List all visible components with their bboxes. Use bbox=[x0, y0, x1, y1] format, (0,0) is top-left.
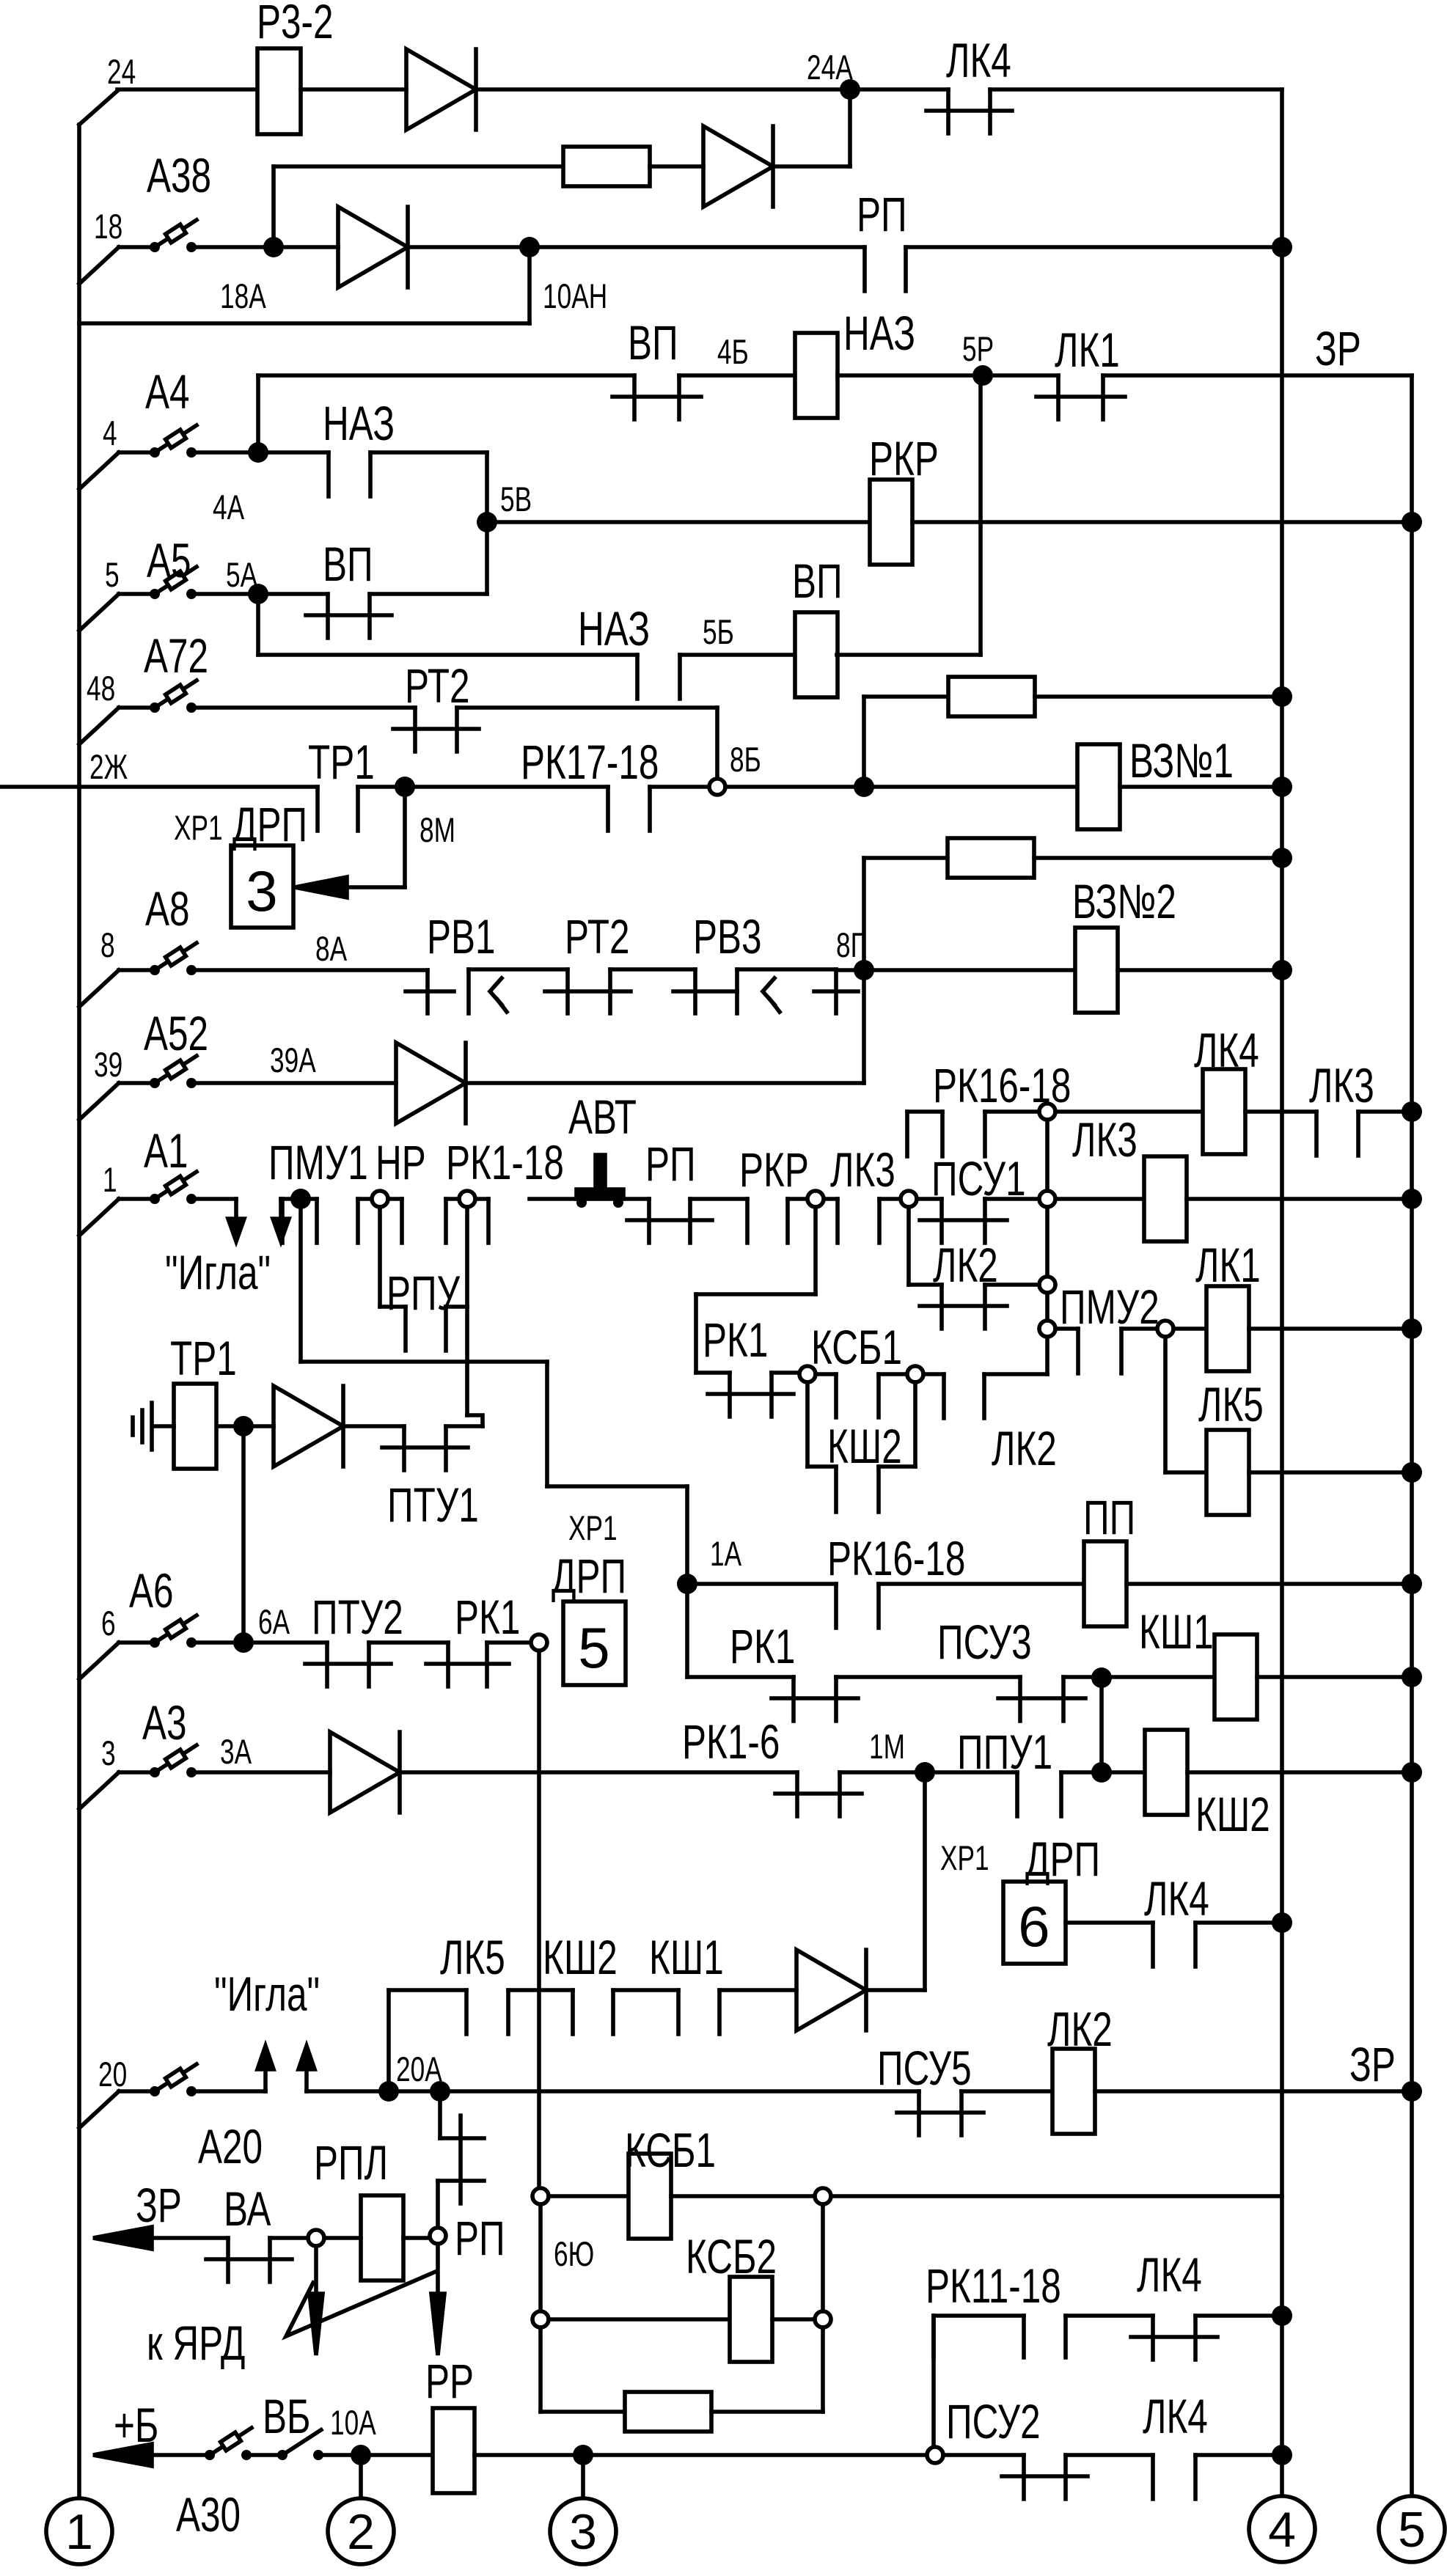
svg-text:24: 24 bbox=[107, 52, 136, 91]
svg-text:А5: А5 bbox=[147, 534, 191, 588]
relay coil РР bbox=[433, 2408, 475, 2493]
wire bbox=[1245, 1109, 1316, 1114]
wire pin column bbox=[1045, 1120, 1049, 1191]
wire bbox=[719, 1988, 796, 1992]
svg-text:4Б: 4Б bbox=[717, 332, 749, 371]
svg-text:ЗР: ЗР bbox=[1315, 322, 1361, 376]
node 8Б-junction bbox=[854, 777, 874, 797]
wire bbox=[274, 245, 338, 249]
node on bus 4 bbox=[1272, 237, 1292, 257]
contact ЛК1 (row 4Б) bbox=[1056, 375, 1060, 419]
svg-text:6: 6 bbox=[101, 1604, 116, 1643]
svg-text:1М: 1М bbox=[869, 1727, 905, 1766]
wire bbox=[1249, 1326, 1412, 1331]
node circled 2 bbox=[328, 2498, 394, 2564]
svg-text:РКР: РКР bbox=[739, 1143, 809, 1197]
svg-text:ЛК1: ЛК1 bbox=[1055, 323, 1120, 378]
pin ПСУ2-left bbox=[927, 2447, 943, 2463]
svg-text:1: 1 bbox=[65, 2504, 93, 2560]
wire bbox=[301, 87, 406, 92]
wire РК11-18 riser bbox=[931, 2316, 936, 2447]
diode VD1 bbox=[406, 49, 476, 130]
relay coil ПП bbox=[1084, 1541, 1127, 1626]
svg-text:24А: 24А bbox=[807, 48, 853, 87]
svg-text:ВЗ№1: ВЗ№1 bbox=[1129, 734, 1234, 788]
contact ППУ1 bbox=[1015, 1772, 1019, 1816]
wire 1М bbox=[840, 1770, 1017, 1775]
svg-text:ПСУ5: ПСУ5 bbox=[877, 2041, 972, 2096]
wire bus column 4 bbox=[1280, 89, 1284, 2495]
wire bbox=[773, 164, 850, 169]
contact НР (row 1) bbox=[358, 1197, 402, 1201]
contact ПТУ1 bbox=[402, 1426, 406, 1470]
wire bbox=[679, 373, 795, 378]
svg-text:ЛК1: ЛК1 bbox=[1195, 1239, 1261, 1293]
svg-text:ПМУ2: ПМУ2 bbox=[1060, 1280, 1160, 1335]
relay coil ЛК2 bbox=[1052, 2049, 1095, 2134]
node 10АН bbox=[519, 237, 540, 257]
svg-text:РК1-6: РК1-6 bbox=[682, 1715, 780, 1769]
svg-text:А6: А6 bbox=[129, 1564, 174, 1618]
contact НАЗ (row 4) bbox=[326, 452, 331, 496]
node circled 5 bbox=[1379, 2496, 1445, 2562]
svg-text:ВА: ВА bbox=[224, 2182, 271, 2236]
svg-text:18: 18 bbox=[94, 207, 122, 246]
switch ВБ bbox=[277, 2450, 287, 2460]
wire +Б arrow bbox=[93, 2444, 152, 2466]
pin ПМУ2 bbox=[1157, 1321, 1173, 1337]
wire bbox=[1249, 1470, 1412, 1475]
relay coil КШ2 bbox=[1145, 1730, 1187, 1815]
relay coil КШ1 bbox=[1215, 1634, 1257, 1720]
svg-text:НАЗ: НАЗ bbox=[578, 602, 650, 656]
svg-text:РК1-18: РК1-18 bbox=[446, 1136, 564, 1190]
relay coil ВЗ№1 bbox=[1077, 744, 1120, 829]
wire bbox=[1195, 2453, 1282, 2457]
svg-text:ПМУ1: ПМУ1 bbox=[268, 1136, 368, 1190]
wire bbox=[369, 1640, 448, 1645]
breaker А52 bbox=[79, 1083, 119, 1120]
contact ВП (row 5) bbox=[326, 594, 330, 638]
contact РП (row 18) bbox=[862, 247, 867, 291]
node on bus 5 bbox=[1402, 1667, 1422, 1687]
svg-text:НАЗ: НАЗ bbox=[843, 307, 915, 361]
contact ЛК4 (row РК11-18) bbox=[1151, 2316, 1155, 2360]
contact РП (vertical) bbox=[438, 2091, 442, 2138]
svg-text:ЛК5: ЛК5 bbox=[1198, 1378, 1264, 1432]
wire bbox=[194, 705, 415, 710]
svg-text:48: 48 bbox=[87, 669, 115, 708]
svg-text:ПСУ2: ПСУ2 bbox=[946, 2395, 1041, 2449]
svg-text:КСБ1: КСБ1 bbox=[625, 2124, 716, 2178]
contact ПТУ2 bbox=[325, 1643, 329, 1687]
arrow к ЯРД bbox=[314, 2246, 318, 2294]
node circled 4 bbox=[1249, 2496, 1315, 2562]
diode VD2 bbox=[703, 126, 773, 207]
node 8Г bbox=[854, 960, 874, 980]
contact ПМУ2 bbox=[1055, 1326, 1078, 1331]
svg-text:ЛК4: ЛК4 bbox=[1194, 1024, 1259, 1078]
wire bbox=[370, 450, 487, 455]
node circled 3 bbox=[550, 2498, 616, 2564]
relay coil ВП bbox=[795, 612, 838, 697]
breaker А3 bbox=[79, 1772, 119, 1809]
wire bbox=[862, 858, 866, 1083]
wire bbox=[872, 785, 1077, 789]
pin РП bbox=[430, 2228, 446, 2244]
diode VD5 bbox=[274, 1386, 343, 1467]
svg-text:3: 3 bbox=[101, 1733, 116, 1772]
svg-text:ДРП: ДРП bbox=[552, 1549, 626, 1604]
wire to bus 4 bbox=[831, 2194, 1282, 2198]
svg-text:ТР1: ТР1 bbox=[308, 735, 375, 790]
svg-text:4А: 4А bbox=[213, 488, 244, 526]
svg-text:3: 3 bbox=[246, 859, 277, 923]
contact РК1-6 bbox=[795, 1772, 799, 1816]
connector Игла arrows bbox=[234, 1199, 238, 1221]
wire bbox=[583, 2453, 927, 2457]
wire 18А bbox=[194, 245, 274, 249]
svg-text:РК11-18: РК11-18 bbox=[926, 2259, 1061, 2313]
svg-text:РК1: РК1 bbox=[703, 1313, 768, 1368]
arrow to РР bbox=[436, 2244, 440, 2294]
wire bbox=[862, 697, 866, 787]
svg-text:8: 8 bbox=[100, 925, 115, 964]
wire bus column 5 bbox=[1410, 375, 1414, 2492]
svg-text:8М: 8М bbox=[420, 810, 455, 849]
pin КСБ1-left bbox=[532, 2188, 549, 2204]
svg-text:НР: НР bbox=[376, 1136, 426, 1190]
svg-text:КШ2: КШ2 bbox=[1195, 1788, 1270, 1842]
svg-text:6А: 6А bbox=[258, 1602, 290, 1641]
contact ЛК2 (row ПСУ1) bbox=[939, 1285, 944, 1329]
contact ЛК4 (row 24) bbox=[946, 89, 950, 133]
node on bus 4 bbox=[1272, 1912, 1292, 1933]
svg-text:ДРП: ДРП bbox=[232, 798, 307, 852]
svg-text:ХР1: ХР1 bbox=[174, 808, 223, 847]
node on bus 4 bbox=[1272, 777, 1292, 797]
relay coil КСБ2 bbox=[730, 2277, 772, 2362]
wire ЗР to bus 5 bbox=[1095, 2089, 1412, 2094]
svg-text:А4: А4 bbox=[145, 365, 190, 419]
wire bbox=[194, 1197, 236, 1201]
svg-text:5: 5 bbox=[1398, 2502, 1426, 2558]
svg-text:8А: 8А bbox=[315, 929, 347, 968]
node bus 3 bbox=[573, 2445, 593, 2465]
node on bus 5 bbox=[1402, 512, 1422, 532]
node 10А bbox=[351, 2445, 371, 2465]
wire ЛК5 branch bbox=[387, 1990, 391, 2091]
wire to bus 4 bbox=[990, 87, 1282, 92]
relay coil ЛК3 bbox=[1144, 1156, 1187, 1241]
svg-text:5Р: 5Р bbox=[962, 329, 994, 368]
contact ВП (row 4Б) bbox=[632, 375, 637, 419]
svg-text:РТ2: РТ2 bbox=[405, 659, 470, 713]
svg-text:ПТУ2: ПТУ2 bbox=[312, 1590, 403, 1645]
diode VD4 bbox=[396, 1043, 466, 1123]
node on bus 5 bbox=[1402, 1318, 1422, 1339]
wire bbox=[1102, 1675, 1214, 1679]
wire with arrow to box 3 bbox=[403, 787, 407, 887]
connector ХР1 ДРП box 3 bbox=[231, 845, 293, 928]
wire bbox=[848, 89, 852, 166]
svg-text:А8: А8 bbox=[145, 882, 190, 936]
svg-text:А3: А3 bbox=[142, 1696, 187, 1750]
wire bbox=[961, 2089, 1052, 2094]
svg-text:5В: 5В bbox=[500, 480, 532, 518]
resistor R1 bbox=[563, 147, 650, 186]
svg-text:ЛК5: ЛК5 bbox=[440, 1931, 505, 1985]
contact РП (row 1) bbox=[647, 1199, 651, 1243]
node 4А bbox=[248, 442, 268, 463]
wire bbox=[838, 373, 1058, 378]
svg-text:ЛК3: ЛК3 bbox=[830, 1143, 895, 1197]
svg-text:ППУ1: ППУ1 bbox=[957, 1725, 1052, 1780]
node on bus 4 bbox=[1272, 686, 1292, 707]
wire bbox=[906, 245, 1282, 249]
breaker А8 bbox=[79, 970, 119, 1007]
wire 4А riser bbox=[256, 375, 260, 452]
node on bus 5 bbox=[1402, 1574, 1422, 1594]
svg-text:6: 6 bbox=[1018, 1894, 1049, 1959]
contact ЛК3 (right) bbox=[1314, 1112, 1319, 1156]
wire bbox=[408, 245, 530, 249]
node bbox=[1091, 1667, 1112, 1688]
svg-text:А38: А38 bbox=[147, 149, 211, 203]
svg-text:Р3-2: Р3-2 bbox=[257, 0, 334, 49]
relay coil ЛК4 bbox=[1203, 1069, 1245, 1154]
wire bbox=[850, 87, 948, 92]
svg-text:+Б: +Б bbox=[114, 2399, 158, 2453]
node on bus 4 bbox=[1272, 960, 1292, 980]
node 5Р bbox=[972, 365, 993, 386]
contact РК17-18 (row 2Ж) bbox=[606, 787, 610, 831]
wire to bus 5 bbox=[1103, 373, 1412, 378]
wire bbox=[466, 1081, 864, 1085]
contact ПМУ1 (row 1) bbox=[281, 1197, 317, 1201]
wire bbox=[1127, 1582, 1412, 1586]
wire bbox=[545, 989, 631, 994]
contact ВА bbox=[226, 2238, 230, 2282]
svg-text:8Г: 8Г bbox=[836, 925, 865, 964]
wire bbox=[836, 1675, 1020, 1679]
relay coil ВЗ№2 bbox=[1075, 928, 1118, 1013]
contact РВ3 (row 8А) bbox=[737, 967, 836, 972]
wire 24 bbox=[117, 87, 257, 92]
svg-text:2: 2 bbox=[347, 2504, 375, 2560]
node on bus 4 bbox=[1272, 2445, 1292, 2465]
wire bbox=[361, 2453, 433, 2457]
svg-text:8Б: 8Б bbox=[730, 740, 761, 779]
svg-text:3А: 3А bbox=[220, 1732, 252, 1771]
contact РК1-18 (row 1) bbox=[446, 1197, 488, 1201]
node ПМУ1 bbox=[290, 1189, 311, 1209]
wire bbox=[298, 1207, 303, 1362]
wire bbox=[241, 1426, 246, 1643]
breaker А4 bbox=[79, 452, 119, 489]
wire bend top-left bbox=[79, 91, 117, 125]
wire bbox=[343, 1424, 404, 1428]
wire 39А bbox=[194, 1081, 396, 1085]
wire bbox=[475, 2453, 583, 2457]
wire bbox=[549, 2317, 730, 2322]
contact РК16-18 (row ЛК4) bbox=[907, 1109, 942, 1114]
svg-text:18А: 18А bbox=[220, 276, 266, 315]
wire bbox=[685, 1584, 689, 1677]
svg-text:ЛК2: ЛК2 bbox=[992, 1422, 1057, 1476]
wire bbox=[1061, 1770, 1102, 1775]
wire bbox=[690, 1197, 747, 1201]
svg-text:А30: А30 bbox=[176, 2488, 241, 2542]
breaker А38 bbox=[79, 247, 119, 284]
wire bbox=[194, 2089, 265, 2094]
relay coil ЛК5 bbox=[1206, 1430, 1249, 1515]
breaker А6 bbox=[79, 1643, 119, 1679]
svg-text:3: 3 bbox=[569, 2504, 597, 2560]
wire 5В bbox=[487, 520, 870, 524]
wire 6А bbox=[194, 1640, 327, 1645]
svg-text:ВП: ВП bbox=[323, 537, 373, 592]
push-button АВТ bbox=[530, 1197, 578, 1201]
svg-text:ЗР: ЗР bbox=[136, 2179, 182, 2233]
svg-text:ВБ: ВБ bbox=[263, 2390, 310, 2444]
node on bus 5 bbox=[1402, 1189, 1422, 1209]
node on bus 4 bbox=[1272, 2305, 1292, 2326]
wire bbox=[1063, 1675, 1102, 1679]
wire to circled 2 bbox=[359, 2455, 363, 2496]
wire bbox=[813, 1207, 818, 1294]
node ТР1 bbox=[233, 1416, 254, 1436]
wire bbox=[725, 785, 864, 789]
resistor R3 bbox=[948, 838, 1034, 878]
svg-text:4: 4 bbox=[1268, 2502, 1296, 2558]
pin 8Б bbox=[709, 779, 725, 795]
svg-text:КСБ1: КСБ1 bbox=[811, 1321, 902, 1375]
pin КСБ2-right bbox=[815, 2311, 831, 2327]
wire 10А bbox=[318, 2453, 361, 2457]
svg-text:ПТУ1: ПТУ1 bbox=[387, 1478, 479, 1533]
wire to circled 3 bbox=[581, 2455, 585, 2496]
svg-text:РП: РП bbox=[857, 188, 907, 242]
svg-text:КШ1: КШ1 bbox=[1139, 1605, 1214, 1659]
svg-text:1: 1 bbox=[103, 1160, 117, 1199]
resistor R4 bbox=[625, 2392, 711, 2432]
contact ПСУ2 bbox=[1022, 2455, 1026, 2499]
contact ЛК4 (row ДРП6) bbox=[1151, 1923, 1155, 1967]
wire bbox=[370, 592, 487, 596]
wire bbox=[1187, 1770, 1412, 1775]
wire bbox=[1257, 1675, 1412, 1679]
contact ТР1 (row 2Ж) bbox=[315, 787, 320, 831]
svg-text:39А: 39А bbox=[270, 1041, 316, 1079]
contact ПСУ3 bbox=[1018, 1677, 1022, 1721]
svg-text:ЗР: ЗР bbox=[1349, 2038, 1396, 2092]
svg-text:ПП: ПП bbox=[1083, 1491, 1135, 1545]
wire bbox=[879, 1197, 942, 1201]
svg-text:РП: РП bbox=[645, 1137, 696, 1192]
diode VD3 bbox=[338, 207, 408, 287]
svg-text:РК1: РК1 bbox=[455, 1590, 520, 1645]
svg-text:ЛК4: ЛК4 bbox=[1137, 2248, 1202, 2302]
wire bbox=[772, 1370, 799, 1375]
svg-text:РП: РП bbox=[455, 2212, 505, 2266]
wire bbox=[465, 1307, 469, 1415]
svg-text:5: 5 bbox=[105, 555, 120, 594]
contact НАЗ (row 5Б) bbox=[635, 655, 640, 699]
diode VD6 bbox=[330, 1732, 400, 1813]
breaker А72 bbox=[79, 708, 119, 744]
wire bbox=[879, 1582, 1084, 1586]
contact ПСУ5 bbox=[917, 2091, 921, 2135]
connector ХР1 ДРП box 5 bbox=[563, 1601, 626, 1685]
wire bbox=[788, 1197, 838, 1201]
svg-text:РКР: РКР bbox=[869, 432, 939, 486]
svg-text:1А: 1А bbox=[710, 1534, 741, 1573]
contact РК1 (row 1А) bbox=[791, 1677, 796, 1721]
node 18А bbox=[263, 237, 284, 257]
node 1М bbox=[915, 1762, 935, 1783]
svg-text:КШ2: КШ2 bbox=[827, 1420, 902, 1474]
svg-text:к ЯРД: к ЯРД bbox=[147, 2316, 245, 2371]
svg-text:ВП: ВП bbox=[628, 316, 678, 370]
svg-text:НАЗ: НАЗ bbox=[323, 397, 395, 451]
relay coil НАЗ bbox=[795, 333, 838, 418]
wire 2Ж bbox=[0, 785, 318, 789]
breaker А20 bbox=[79, 2091, 119, 2128]
svg-text:РТ2: РТ2 bbox=[565, 910, 630, 964]
wire bbox=[1102, 1770, 1145, 1775]
wire bbox=[216, 1424, 274, 1428]
contact ЛК4 (bottom row) bbox=[1151, 2455, 1155, 2499]
svg-text:ХР1: ХР1 bbox=[940, 1838, 989, 1877]
svg-text:ВП: ВП bbox=[792, 554, 843, 609]
node 24А bbox=[840, 79, 860, 100]
wire bbox=[821, 2204, 825, 2311]
breaker А5 bbox=[79, 594, 119, 631]
wire bbox=[378, 1207, 382, 1307]
svg-text:"Игла": "Игла" bbox=[214, 1967, 320, 2022]
wire ЗР arrow bbox=[93, 2227, 152, 2249]
wire bbox=[1163, 1337, 1168, 1472]
wire bbox=[446, 1304, 467, 1309]
svg-text:РК1: РК1 bbox=[730, 1620, 795, 1674]
wire bbox=[1066, 1920, 1153, 1925]
wire bbox=[1195, 2313, 1282, 2318]
node 1А bbox=[677, 1574, 697, 1594]
relay coil Р3-2 bbox=[257, 48, 301, 134]
wire bbox=[271, 166, 276, 244]
pin ДРП5 bbox=[531, 1634, 547, 1651]
svg-text:5Б: 5Б bbox=[703, 612, 734, 651]
node 5В bbox=[477, 512, 497, 532]
wire bbox=[1066, 2453, 1153, 2457]
svg-text:ЛК4: ЛК4 bbox=[1143, 2390, 1208, 2444]
wire 6Ю bbox=[538, 2204, 543, 2311]
svg-text:А20: А20 bbox=[198, 2120, 263, 2174]
breaker А1 bbox=[79, 1199, 119, 1236]
contact ЛК5 (row 20А) bbox=[464, 1990, 469, 2034]
wire bbox=[549, 2194, 629, 2198]
relay coil РПЛ bbox=[361, 2195, 403, 2280]
svg-text:А52: А52 bbox=[144, 1007, 208, 1061]
svg-text:ТР1: ТР1 bbox=[170, 1332, 237, 1386]
svg-text:КШ2: КШ2 bbox=[543, 1931, 618, 1985]
wire bbox=[487, 1640, 531, 1645]
svg-text:ЛК4: ЛК4 bbox=[946, 34, 1011, 88]
wire ДРП5 down bbox=[537, 1651, 541, 2188]
wire bbox=[1099, 1678, 1104, 1772]
wire bbox=[1039, 1104, 1055, 1120]
